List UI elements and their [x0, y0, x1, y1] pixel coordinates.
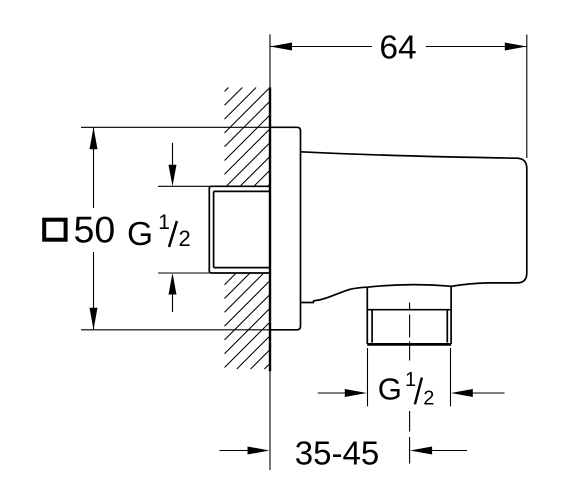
- saddle arc across outlet top: [367, 285, 451, 288]
- svg-text:1: 1: [158, 211, 170, 234]
- outlet thread chamfer right: [446, 310, 448, 343]
- flange (square escutcheon) outline: [270, 127, 301, 329]
- inlet thread dim arrow top: [172, 143, 174, 168]
- outlet thread chamfer left: [371, 310, 373, 343]
- dim 64 extension line right: [526, 35, 528, 159]
- dim 50 extension line bottom / flange bottom extension: [81, 329, 270, 331]
- inlet thread minor-diameter line top: [214, 190, 270, 192]
- square symbol: [44, 220, 65, 240]
- svg-text:2: 2: [179, 226, 191, 251]
- svg-text:64: 64: [379, 30, 416, 67]
- outlet G 1/2 dim arrow left: [318, 392, 347, 394]
- svg-text:2: 2: [423, 387, 434, 409]
- inlet thread minor-diameter line bottom: [214, 267, 270, 269]
- body bottom left contour with step: [301, 287, 368, 302]
- outlet boss right edge: [450, 286, 452, 344]
- svg-text:G: G: [378, 371, 402, 406]
- inlet thread chamfer line: [213, 191, 215, 267]
- dim 50 extension line top / flange top extension: [81, 126, 270, 128]
- inlet thread dim extension line bottom: [158, 272, 209, 274]
- svg-text:G: G: [127, 216, 153, 253]
- svg-text:50: 50: [74, 209, 116, 251]
- centre line of outlet (dashed): [409, 303, 411, 464]
- dim 50 arrow down: [90, 308, 98, 330]
- outlet boss left edge: [366, 287, 368, 344]
- dim 64 arrow right: [505, 43, 527, 51]
- dim 50 line: [93, 127, 95, 208]
- dim 35-45 arrow left: [220, 450, 250, 452]
- outlet G 1/2 dim extension line left: [367, 348, 369, 406]
- inlet thread (behind wall) outer outline: [209, 186, 270, 273]
- wall surface line (thick): [269, 87, 271, 371]
- svg-text:1: 1: [405, 369, 416, 391]
- outlet thread end face (thick): [367, 343, 451, 346]
- wall hatching: [225, 88, 271, 370]
- dim 64 line: [270, 46, 372, 48]
- dim 64 arrow left: [270, 43, 292, 51]
- dim 35-45 arrow right: [430, 450, 467, 452]
- wall extension line bottom (to 35-45 dim): [269, 371, 271, 470]
- inlet thread dim arrow bottom: [172, 291, 174, 312]
- svg-text:35-45: 35-45: [295, 435, 379, 472]
- outlet thread shoulder line: [367, 309, 451, 311]
- outlet G 1/2 dim extension line right: [450, 348, 452, 406]
- wall extension line top (to 64 dim): [269, 34, 271, 87]
- elbow body outline: [301, 152, 527, 286]
- inlet thread dim extension line top: [158, 185, 209, 187]
- dim 50 arrow up: [90, 127, 98, 149]
- outlet G 1/2 dim arrow right: [471, 392, 505, 394]
